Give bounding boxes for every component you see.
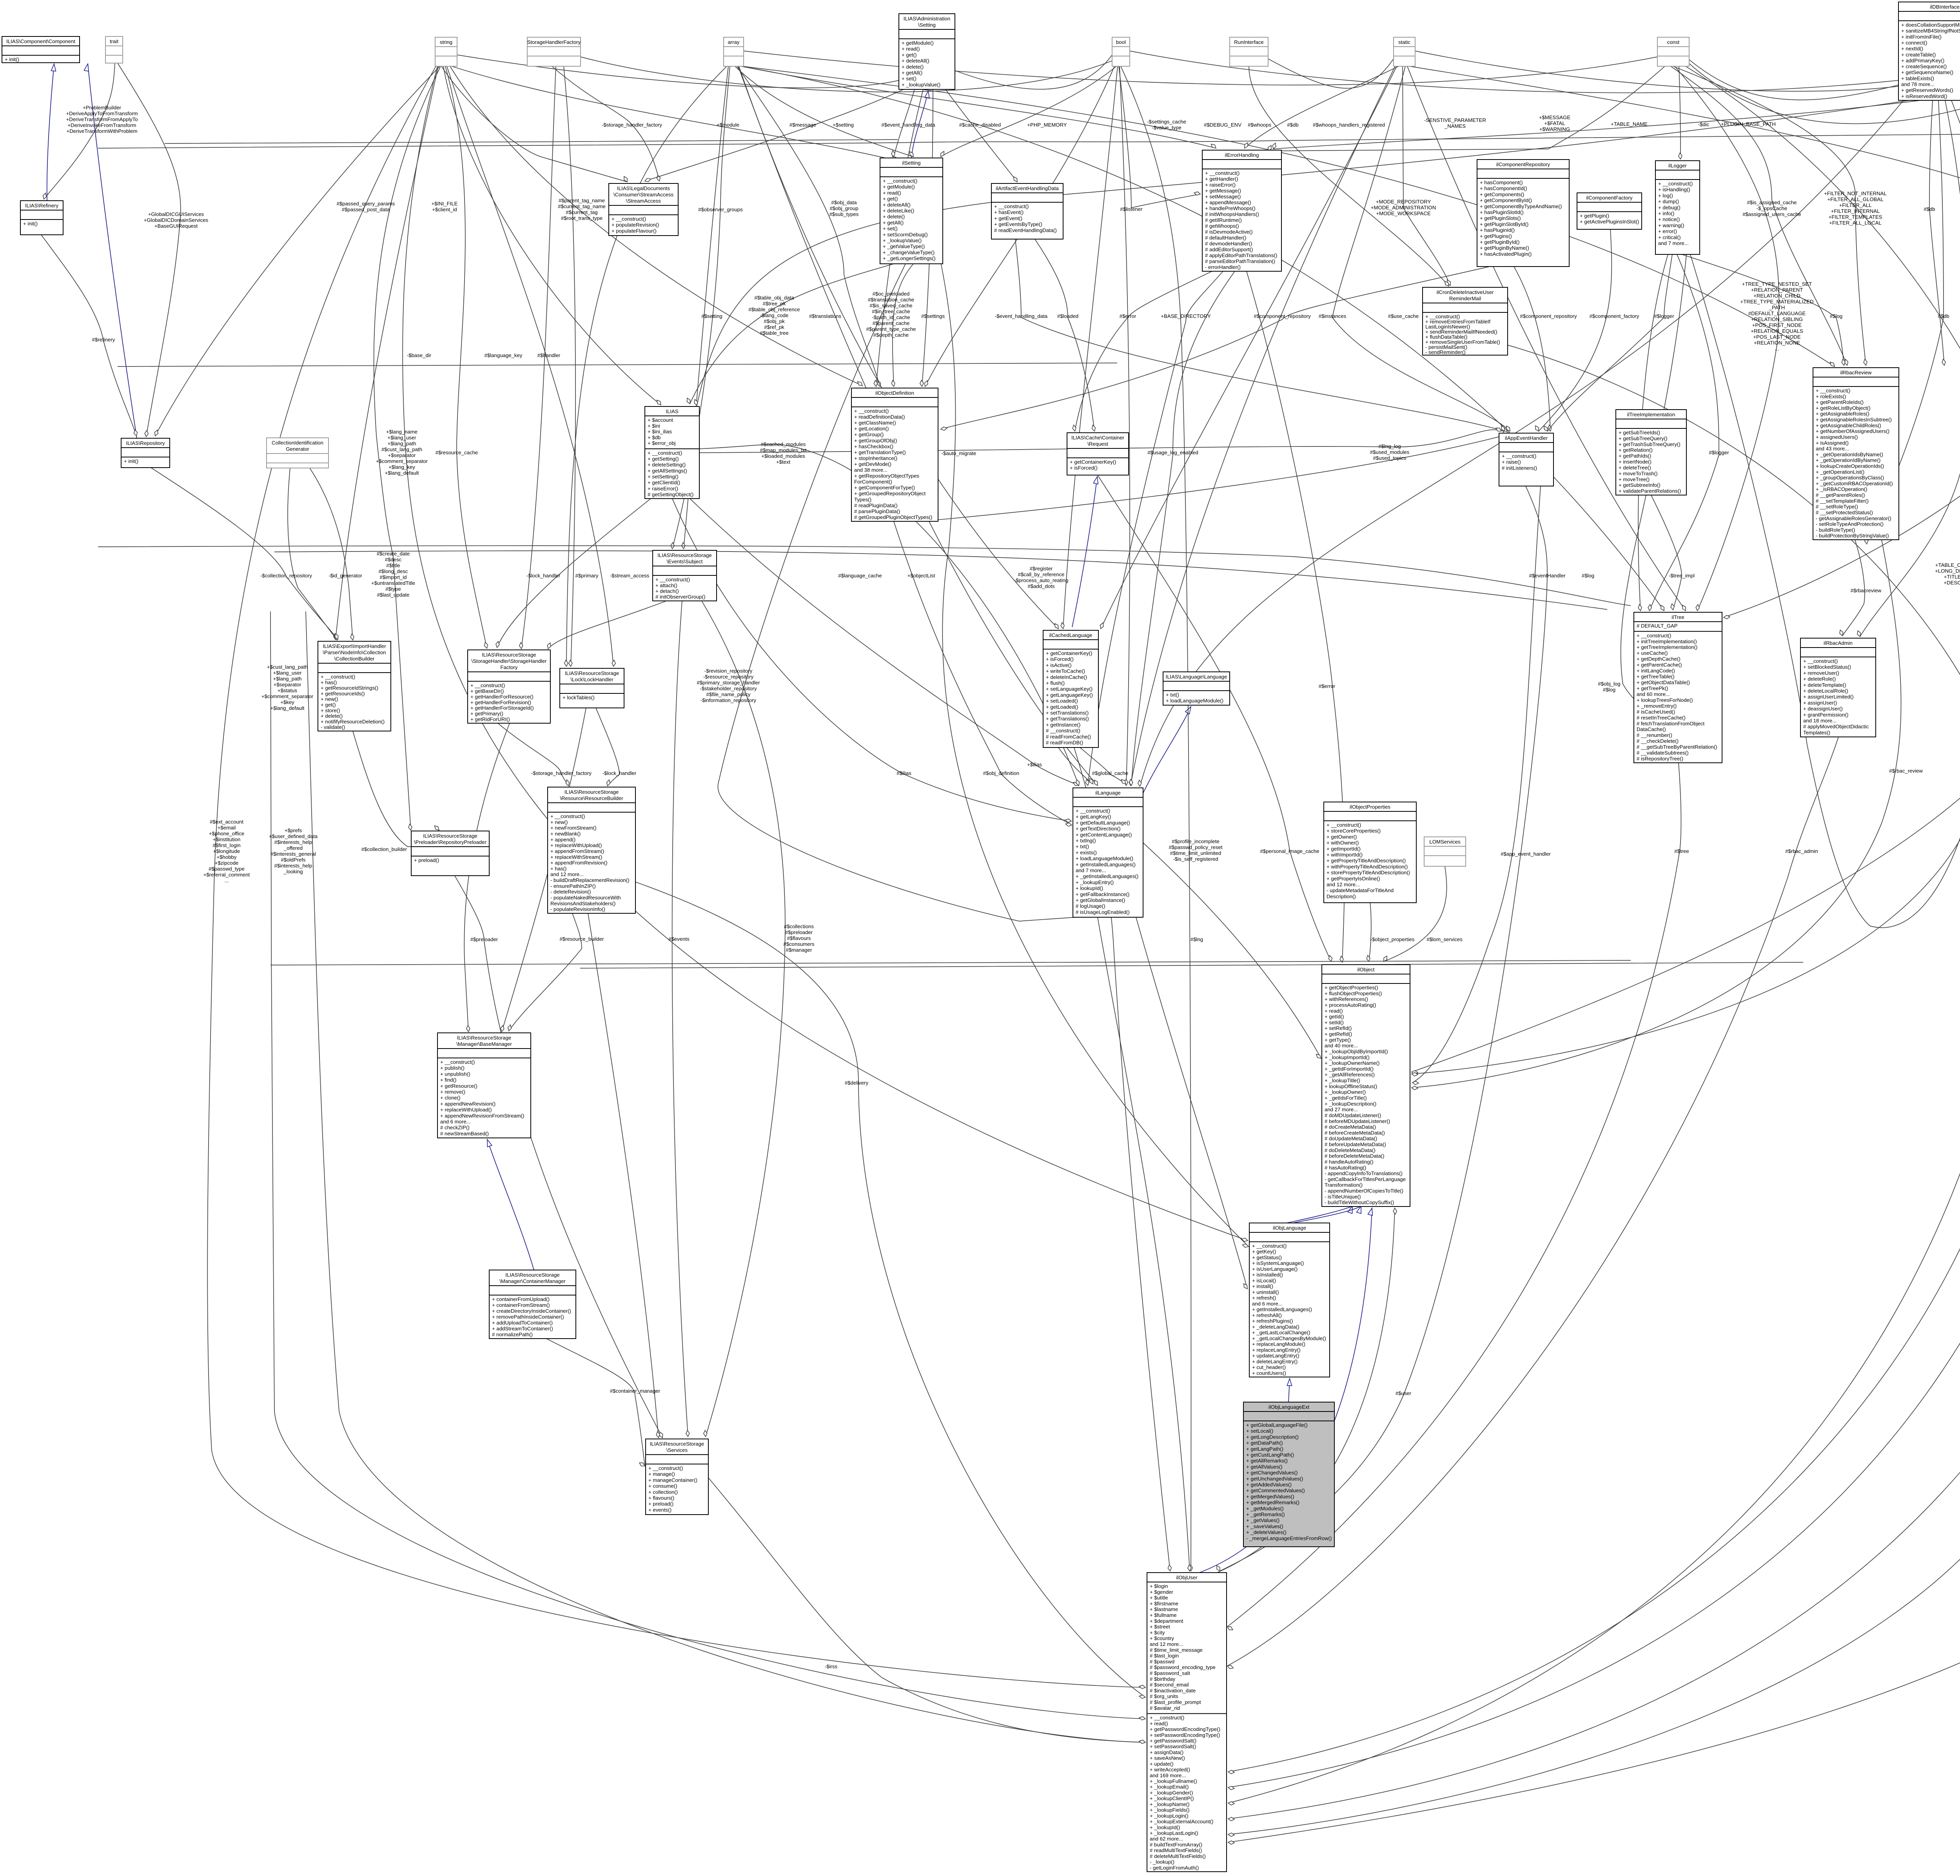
svg-text:+ storePropertyTitleAndDescrip: + storePropertyTitleAndDescription(): [1327, 870, 1410, 876]
svg-text:+FILTER_ALL_GLOBAL: +FILTER_ALL_GLOBAL: [1827, 196, 1883, 202]
svg-text:+ getGroup(): + getGroup(): [854, 432, 884, 437]
node label: [1371, 199, 1436, 216]
node label: [1370, 443, 1410, 461]
svg-text:bool: bool: [1116, 39, 1126, 45]
svg-text:+ read(): + read(): [1325, 1008, 1343, 1014]
svg-text:+FILTER_NOT_INTERNAL: +FILTER_NOT_INTERNAL: [1824, 191, 1887, 196]
svg-text:and 78 more...: and 78 more...: [1901, 82, 1935, 87]
svg-text:# __setRoleType(): # __setRoleType(): [1816, 504, 1858, 510]
svg-text:+ remove(): + remove(): [440, 1089, 465, 1095]
svg-text:# getSettingObject(): # getSettingObject(): [648, 492, 693, 497]
svg-text:+ set(): + set(): [883, 226, 898, 232]
svg-text:#$component_repository: #$component_repository: [1254, 313, 1311, 319]
node label: [1191, 936, 1203, 942]
wire: [1268, 66, 1665, 151]
svg-text:# addEditorSupport(): # addEditorSupport(): [1205, 247, 1253, 252]
svg-text:+ getClientId(): + getClientId(): [648, 480, 680, 486]
svg-text:# __setProtectedStatus(): # __setProtectedStatus(): [1816, 510, 1873, 515]
node label: [407, 352, 432, 358]
svg-text:+ append(): + append(): [550, 836, 575, 842]
svg-text:+$status: +$status: [278, 688, 298, 693]
svg-text:+ txt(): + txt(): [1076, 844, 1089, 849]
wire: [941, 267, 1490, 429]
svg-text:+ _lookupDescription(): + _lookupDescription(): [1325, 1101, 1376, 1107]
svg-text:- buildRoleType(): - buildRoleType(): [1816, 527, 1855, 533]
svg-text:ILIAS\Cache\Container: ILIAS\Cache\Container: [1071, 435, 1124, 441]
svg-text:#DEFAULT_LANGUAGE: #DEFAULT_LANGUAGE: [1748, 310, 1806, 316]
svg-text:+$separator: +$separator: [274, 682, 301, 688]
node label: [1254, 313, 1311, 319]
wire: [497, 499, 651, 648]
svg-text:Templates(): Templates(): [1803, 729, 1830, 735]
svg-text:#$db: #$db: [1938, 313, 1949, 319]
node label: [983, 770, 1019, 776]
svg-text:ILIAS\ResourceStorage: ILIAS\ResourceStorage: [457, 1035, 512, 1041]
wire: [672, 66, 730, 549]
node label: [1598, 681, 1620, 693]
svg-text:#$rbac_review: #$rbac_review: [1889, 768, 1923, 774]
wire: [580, 962, 1803, 968]
svg-text:# __getParentRoles(): # __getParentRoles(): [1816, 492, 1865, 498]
svg-text:+RELATION_PARENT: +RELATION_PARENT: [1751, 287, 1803, 293]
wire: [207, 66, 1145, 1687]
svg-text:#$in_tree_cache: #$in_tree_cache: [872, 308, 910, 314]
class objprops: [1324, 802, 1416, 903]
svg-text:# readPluginData(): # readPluginData(): [854, 503, 898, 508]
node label: [1529, 573, 1566, 579]
svg-text:+$lang_path: +$lang_path: [388, 441, 416, 446]
svg-text:+$ilias: +$ilias: [1027, 762, 1042, 767]
svg-text:+ deleteLike(): + deleteLike(): [883, 208, 914, 214]
svg-text:+ writeToCache(): + writeToCache(): [1046, 668, 1085, 674]
svg-text:and 7 more...: and 7 more...: [1076, 867, 1106, 873]
svg-text:+ __construct(): + __construct(): [1205, 170, 1240, 176]
svg-text:ILIAS\Language\Language: ILIAS\Language\Language: [1166, 674, 1227, 680]
svg-text:+ _getOperationList(): + _getOperationList(): [1816, 469, 1864, 475]
node label: [203, 819, 250, 884]
wire: [1679, 66, 1681, 159]
node label: [907, 573, 935, 579]
node label: [1260, 848, 1319, 854]
svg-text:+ lookupCreateOperationIds(): + lookupCreateOperationIds(): [1816, 463, 1884, 469]
wire: [1724, 66, 1960, 617]
class streamaccess: [609, 183, 678, 236]
svg-text:+ _lookupValue(): + _lookupValue(): [883, 238, 922, 243]
svg-text:+ setRefId(): + setRefId(): [1325, 1025, 1352, 1031]
svg-text:# getGroupedPluginObjectTypes(: # getGroupedPluginObjectTypes(): [854, 514, 932, 520]
svg-text:+ publish(): + publish(): [440, 1065, 465, 1071]
svg-text:# $last_login: # $last_login: [1150, 1653, 1179, 1659]
svg-text:+ getSubtreeInfo(): + getSubtreeInfo(): [1619, 482, 1661, 488]
svg-text:# isDevmodeActive(): # isDevmodeActive(): [1205, 229, 1253, 235]
svg-text:\Resource\ResourceBuilder: \Resource\ResourceBuilder: [560, 795, 623, 801]
svg-text:static: static: [1398, 39, 1410, 45]
wire: [1548, 254, 1672, 431]
svg-text:#$app_event_handler: #$app_event_handler: [1501, 851, 1551, 857]
wire: [1514, 267, 1550, 431]
svg-text:+ lookupTreesForNode(): + lookupTreesForNode(): [1637, 697, 1693, 703]
wire: [41, 235, 136, 436]
svg-text:+ getCustLangPath(): + getCustLangPath(): [1246, 1452, 1294, 1458]
svg-text:+ attach(): + attach(): [655, 582, 677, 588]
svg-text:+ deleteAll(): + deleteAll(): [883, 202, 911, 208]
svg-text:-$collection_repository: -$collection_repository: [260, 573, 312, 579]
wire: [1289, 1379, 1290, 1402]
svg-text:+ txt(): + txt(): [1166, 692, 1179, 698]
wire: [1860, 100, 1960, 637]
svg-text:-$storage_handler_factory: -$storage_handler_factory: [602, 122, 662, 128]
svg-text:+ getLoaded(): + getLoaded(): [1046, 704, 1078, 710]
svg-text:+ doesCollationSupportMB4Strin: + doesCollationSupportMB4Strings(): [1901, 22, 1960, 28]
svg-text:# buildTextFromArray(): # buildTextFromArray(): [1150, 1842, 1202, 1847]
wire: [1098, 917, 1190, 1571]
svg-text:+ deassignUser(): + deassignUser(): [1803, 706, 1843, 712]
svg-text:+ flushObjectProperties(): + flushObjectProperties(): [1325, 991, 1382, 996]
svg-text:+ init(): + init(): [124, 458, 138, 464]
svg-text:+ getAllRemarks(): + getAllRemarks(): [1246, 1458, 1288, 1464]
svg-text:+ getCommentedValues(): + getCommentedValues(): [1246, 1488, 1305, 1493]
svg-text:# __setTemplateFilter(): # __setTemplateFilter(): [1816, 498, 1869, 504]
svg-text:ilRbacReview: ilRbacReview: [1840, 370, 1872, 376]
node label: [1674, 848, 1689, 854]
node label: [1721, 121, 1776, 127]
svg-text:+ addUploadToContainer(): + addUploadToContainer(): [492, 1320, 553, 1326]
wire: [672, 499, 1071, 821]
svg-text:-$object_properties: -$object_properties: [1370, 936, 1415, 942]
wire: [1080, 747, 1126, 784]
svg-text:+ _groupOperationsByClass(): + _groupOperationsByClass(): [1816, 475, 1884, 481]
svg-text:#$table_obj_reference: #$table_obj_reference: [748, 307, 800, 312]
svg-text:#$listener: #$listener: [1120, 206, 1143, 212]
svg-text:#$root_trans_type: #$root_trans_type: [561, 215, 603, 221]
svg-text:+ setLanguageKey(): + setLanguageKey(): [1046, 686, 1093, 692]
svg-text:- validate(): - validate(): [321, 724, 345, 730]
svg-text:+ getPluginByName(): + getPluginByName(): [1480, 245, 1529, 251]
svg-text:+$referral_comment: +$referral_comment: [203, 872, 250, 878]
svg-text:+ __construct(): + __construct(): [1803, 658, 1838, 664]
wire: [310, 468, 353, 640]
svg-text:+ loadLanguageModule(): + loadLanguageModule(): [1076, 856, 1133, 862]
wire: [1035, 239, 1094, 431]
node label: [371, 551, 415, 598]
svg-text:#$tree_pk: #$tree_pk: [763, 301, 786, 307]
svg-text:+ initTreeImplementation(): + initTreeImplementation(): [1637, 639, 1697, 644]
wire: [1140, 100, 1904, 786]
svg-text:_NAMES: _NAMES: [1444, 123, 1466, 129]
svg-text:+ set(): + set(): [902, 76, 916, 82]
svg-text:+ getPrimary(): + getPrimary(): [470, 711, 503, 717]
svg-text:+ getComponentByTypeAndName(): + getComponentByTypeAndName(): [1480, 203, 1562, 209]
svg-text:#$usage_log_enabled: #$usage_log_enabled: [1147, 450, 1198, 455]
wire: [548, 601, 666, 649]
svg-text:+ getMergedValues(): + getMergedValues(): [1246, 1493, 1294, 1499]
svg-text:and 6 more...: and 6 more...: [1252, 1301, 1283, 1306]
svg-text:+ _getValueType(): + _getValueType(): [883, 243, 925, 249]
svg-text:+ __construct(): + __construct(): [1150, 1715, 1184, 1721]
svg-text:# hasAutoRating(): # hasAutoRating(): [1325, 1165, 1366, 1170]
wire: [1369, 902, 1371, 962]
node label: [1501, 851, 1551, 857]
svg-text:+ _lookupOwnerName(): + _lookupOwnerName(): [1325, 1060, 1379, 1066]
svg-text:+ initFromIniFile(): + initFromIniFile(): [1901, 34, 1942, 40]
class shftop: [527, 37, 581, 66]
class containermgr: [489, 1270, 576, 1339]
wire: [1200, 1208, 1372, 1573]
svg-text:+ getAll(): + getAll(): [902, 70, 922, 76]
svg-text:# doCreateMetaData(): # doCreateMetaData(): [1325, 1124, 1376, 1130]
svg-text:#$parent_cache: #$parent_cache: [873, 320, 910, 326]
svg-text:\Lock\LockHandler: \Lock\LockHandler: [570, 677, 613, 682]
svg-text:+ isActive(): + isActive(): [1046, 662, 1072, 668]
class subject: [653, 550, 717, 601]
wire: [521, 66, 556, 649]
wire: [88, 64, 137, 438]
svg-text:StorageHandlerFactory: StorageHandlerFactory: [527, 39, 581, 45]
node label: [537, 352, 561, 358]
svg-text:+RELATION_SIBLING: +RELATION_SIBLING: [1751, 316, 1803, 322]
svg-text:+ clone(): + clone(): [440, 1095, 461, 1101]
svg-text:+DeriveTransformFromApplyTo: +DeriveTransformFromApplyTo: [66, 116, 138, 122]
svg-text:+ getGlobalLanguageFile(): + getGlobalLanguageFile(): [1246, 1422, 1308, 1428]
svg-text:# doDeleteMetaData(): # doDeleteMetaData(): [1325, 1147, 1376, 1153]
svg-text:+ $ini: + $ini: [648, 423, 660, 429]
node label: [436, 450, 478, 455]
svg-text:+ getReservedWords(): + getReservedWords(): [1901, 87, 1953, 93]
svg-text:ILIAS\ResourceStorage: ILIAS\ResourceStorage: [564, 789, 619, 795]
svg-text:+ getFallbackInstance(): + getFallbackInstance(): [1076, 891, 1129, 897]
svg-text:#$current_tag: #$current_tag: [566, 209, 597, 215]
svg-text:# DEFAULT_GAP: # DEFAULT_GAP: [1637, 623, 1678, 629]
svg-text:ilDBInterface: ilDBInterface: [1930, 4, 1960, 10]
svg-text:+ has(): + has(): [550, 865, 566, 871]
svg-text:+ get(): + get(): [902, 52, 916, 58]
svg-text:+ deleteAll(): + deleteAll(): [902, 58, 929, 64]
svg-text:# beforeDeleteMetaData(): # beforeDeleteMetaData(): [1325, 1153, 1384, 1159]
svg-text:+ hasComponentId(): + hasComponentId(): [1480, 185, 1527, 191]
svg-text:+ appendFromRevision(): + appendFromRevision(): [550, 860, 608, 866]
svg-text:#$event_handling_data: #$event_handling_data: [881, 122, 935, 128]
svg-text:+ _getLastLocalChange(): + _getLastLocalChange(): [1252, 1330, 1310, 1335]
node label: [526, 573, 561, 579]
svg-text:+ exists(): + exists(): [1076, 849, 1097, 855]
svg-text:+ __construct(): + __construct(): [883, 178, 917, 184]
wire: [452, 66, 897, 161]
svg-text:+FILTER_ALL_LOCAL: +FILTER_ALL_LOCAL: [1829, 220, 1882, 226]
svg-text:+ getInstalledLanguages(): + getInstalledLanguages(): [1076, 862, 1136, 867]
svg-text:+ getHandlerForResource(): + getHandlerForResource(): [470, 694, 534, 700]
wire: [165, 140, 898, 143]
node label: [1204, 122, 1241, 128]
svg-text:+ read(): + read(): [902, 46, 920, 52]
svg-text:#$resource_builder: #$resource_builder: [560, 936, 604, 942]
wire: [498, 723, 568, 786]
class services: [646, 1439, 708, 1515]
svg-text:-$lock_handler: -$lock_handler: [526, 573, 561, 579]
class cron: [1423, 287, 1508, 355]
svg-text:+ getResourceIdStrings(): + getResourceIdStrings(): [321, 685, 378, 691]
svg-text:# newStreamBased(): # newStreamBased(): [440, 1130, 489, 1136]
svg-text:+ readDefinitionData(): + readDefinitionData(): [854, 414, 905, 420]
svg-text:+ getHandlerForRevision(): + getHandlerForRevision(): [470, 699, 531, 705]
wire: [737, 66, 880, 386]
svg-text:\Request: \Request: [1087, 441, 1108, 447]
node label: [610, 1388, 661, 1394]
node label: [144, 211, 209, 229]
svg-text:+ countUsers(): + countUsers(): [1252, 1370, 1286, 1376]
svg-text:+ txtlng(): + txtlng(): [1076, 838, 1096, 844]
svg-text:#$cust_lang_path: #$cust_lang_path: [381, 446, 422, 452]
svg-text:-$irss: -$irss: [825, 1664, 838, 1669]
wire: [336, 66, 438, 640]
svg-text:+RELATION_NONE: +RELATION_NONE: [1754, 340, 1800, 346]
svg-text:...: ...: [225, 878, 229, 884]
svg-text:+ storeCoreProperties(): + storeCoreProperties(): [1327, 828, 1381, 834]
node label: [1924, 206, 1935, 212]
svg-text:+ _getValues(): + _getValues(): [1246, 1517, 1279, 1523]
svg-text:+ _getOperationIdsByName(): + _getOperationIdsByName(): [1816, 452, 1883, 457]
svg-text:+ consume(): + consume(): [648, 1483, 677, 1489]
svg-text:ilCronDeleteInactiveUser: ilCronDeleteInactiveUser: [1437, 289, 1494, 295]
svg-text:+$MESSAGE: +$MESSAGE: [1539, 114, 1570, 120]
node label: [1147, 450, 1198, 455]
svg-text:+ _getIdsForTitle(): + _getIdsForTitle(): [1325, 1095, 1367, 1101]
svg-text:+ $gender: + $gender: [1150, 1589, 1173, 1595]
node label: [1319, 683, 1336, 689]
svg-text:+ _lookupValue(): + _lookupValue(): [902, 82, 940, 87]
svg-text:ilObject: ilObject: [1357, 967, 1375, 972]
svg-text:+ isUserLanguage(): + isUserLanguage(): [1252, 1266, 1298, 1272]
svg-text:# doMDUpdateListener(): # doMDUpdateListener(): [1325, 1112, 1381, 1118]
svg-text:+ getPlugins(): + getPlugins(): [1480, 233, 1512, 239]
wire: [1412, 540, 1901, 1088]
wire: [735, 66, 913, 157]
svg-text:#$primary_storage_handler: #$primary_storage_handler: [697, 680, 760, 686]
svg-text:+ getContainerKey(): + getContainerKey(): [1046, 650, 1092, 656]
wire: [1866, 100, 1944, 538]
svg-text:+ read(): + read(): [1150, 1720, 1168, 1726]
wire: [566, 66, 727, 666]
svg-text:+ removePathInsideContainer(): + removePathInsideContainer(): [492, 1314, 564, 1320]
class ilsetting: [880, 158, 943, 264]
svg-text:-$process_auto_reating: -$process_auto_reating: [1014, 577, 1069, 583]
svg-text:+ manageContainer(): + manageContainer(): [648, 1477, 697, 1483]
svg-text:+ assignedUsers(): + assignedUsers(): [1816, 434, 1858, 440]
wire: [1332, 66, 1510, 431]
wire: [1015, 239, 1504, 431]
svg-text:+ getPluginById(): + getPluginById(): [1480, 239, 1520, 245]
svg-text:#$instances: #$instances: [1319, 313, 1347, 319]
svg-text:ilTree: ilTree: [1671, 614, 1684, 620]
svg-text:# parsePluginData(): # parsePluginData(): [854, 508, 900, 514]
svg-text:+ __construct(): + __construct(): [470, 682, 505, 688]
svg-text:ilSetting: ilSetting: [902, 160, 921, 166]
svg-text:+ deleteRole(): + deleteRole(): [1803, 676, 1836, 682]
wire: [44, 63, 115, 199]
svg-text:#$eventHandler: #$eventHandler: [1529, 573, 1566, 579]
svg-text:+ sanitizeMB4StringIfNotSuppor: + sanitizeMB4StringIfNotSupported(): [1901, 28, 1960, 34]
svg-text:+$cust_lang_path: +$cust_lang_path: [267, 664, 308, 670]
svg-text:\Manager\BaseManager: \Manager\BaseManager: [456, 1041, 512, 1047]
node label: [833, 122, 854, 128]
svg-text:RunInterface: RunInterface: [1234, 39, 1264, 45]
svg-text:+ moveTree(): + moveTree(): [1619, 476, 1650, 482]
svg-text:+ log(): + log(): [1658, 192, 1673, 198]
svg-text:#$component_repository: #$component_repository: [1520, 313, 1577, 319]
svg-text:# normalizePath(): # normalizePath(): [492, 1332, 533, 1337]
svg-text:+ __construct(): + __construct(): [655, 577, 690, 582]
svg-text:+ hasEvent(): + hasEvent(): [994, 209, 1024, 215]
svg-text:ILIAS\Export\ImportHandler: ILIAS\Export\ImportHandler: [323, 643, 386, 649]
svg-text:#$depth_cache: #$depth_cache: [873, 332, 909, 338]
svg-text:+ assignUser(): + assignUser(): [1803, 700, 1837, 706]
svg-text:#$use_cache: #$use_cache: [1388, 313, 1419, 319]
svg-text:#$register: #$register: [1030, 566, 1053, 572]
svg-text:ilLogger: ilLogger: [1668, 163, 1687, 169]
svg-text:+ replaceWithUpload(): + replaceWithUpload(): [550, 842, 602, 848]
node label: [1169, 838, 1222, 862]
class rbacadmin: [1800, 638, 1876, 737]
svg-text:and 40 more...: and 40 more...: [1325, 1043, 1358, 1049]
svg-text:+ __construct(): + __construct(): [1816, 388, 1850, 394]
svg-text:ILIAS\LegalDocuments: ILIAS\LegalDocuments: [617, 185, 670, 191]
svg-text:#$is_saved_cache: #$is_saved_cache: [869, 303, 912, 308]
class appevent: [1499, 433, 1553, 486]
svg-text:#$last_update: #$last_update: [377, 592, 410, 598]
svg-text:+ setLocal(): + setLocal(): [1246, 1428, 1273, 1434]
svg-text:# beforeMDUpdateListener(): # beforeMDUpdateListener(): [1325, 1118, 1390, 1124]
svg-text:+$module: +$module: [717, 122, 739, 128]
svg-text:ilObjectDefinition: ilObjectDefinition: [875, 390, 914, 396]
svg-text:+FILTER_ALL: +FILTER_ALL: [1839, 202, 1872, 208]
svg-text:\Preloader\RepositoryPreloader: \Preloader\RepositoryPreloader: [414, 839, 486, 845]
svg-text:Description(): Description(): [1327, 893, 1356, 899]
wire: [151, 468, 338, 639]
wire: [1671, 66, 1847, 365]
node label: [337, 201, 395, 212]
class langif: [1163, 672, 1230, 705]
svg-text:+ notice(): + notice(): [1658, 216, 1680, 222]
svg-text:-$id_generator: -$id_generator: [328, 573, 362, 579]
svg-text:ilArtifactEventHandlingData: ilArtifactEventHandlingData: [996, 185, 1059, 191]
svg-text:+POS_FIRST_NODE: +POS_FIRST_NODE: [1752, 322, 1802, 328]
svg-text:# applyEditorPathTranslations(: # applyEditorPathTranslations(): [1205, 252, 1277, 258]
wire: [509, 913, 582, 1031]
svg-text:+DeriveApplyToFromTransform: +DeriveApplyToFromTransform: [66, 111, 138, 116]
svg-text:+ isForced(): + isForced(): [1046, 656, 1074, 662]
svg-text:# readEventHandlingData(): # readEventHandlingData(): [994, 227, 1057, 233]
class lockhandler: [560, 668, 624, 708]
svg-text:+ _lookupClientIP(): + _lookupClientIP(): [1150, 1796, 1194, 1802]
class adminset: [899, 14, 955, 89]
svg-text:+ lockTables(): + lockTables(): [563, 695, 595, 700]
svg-text:- buildProtectionByStringValue: - buildProtectionByStringValue(): [1816, 533, 1889, 539]
svg-text:+ _lookupEntry(): + _lookupEntry(): [1076, 879, 1114, 885]
svg-text:#$desc: #$desc: [385, 557, 402, 562]
svg-text:\Consumer\StreamAccess: \Consumer\StreamAccess: [613, 192, 674, 198]
svg-text:+ createSequence(): + createSequence(): [1901, 64, 1947, 69]
svg-text:#$long_desc: #$long_desc: [379, 568, 408, 574]
class bool: [1112, 37, 1130, 66]
svg-text:-$tree_impl: -$tree_impl: [1669, 573, 1695, 579]
svg-text:+$setting: +$setting: [833, 122, 854, 128]
svg-text:+ setId(): + setId(): [1325, 1020, 1344, 1025]
svg-text:+$lang_key: +$lang_key: [388, 464, 415, 470]
svg-text:-$dic: -$dic: [1698, 122, 1710, 127]
svg-text:# defaultHandler(): # defaultHandler(): [1205, 235, 1247, 241]
svg-text:ILIAS\ResourceStorage: ILIAS\ResourceStorage: [565, 670, 619, 676]
svg-text:+ appendFromStream(): + appendFromStream(): [550, 848, 604, 854]
svg-text:+ __construct(): + __construct(): [648, 450, 682, 456]
